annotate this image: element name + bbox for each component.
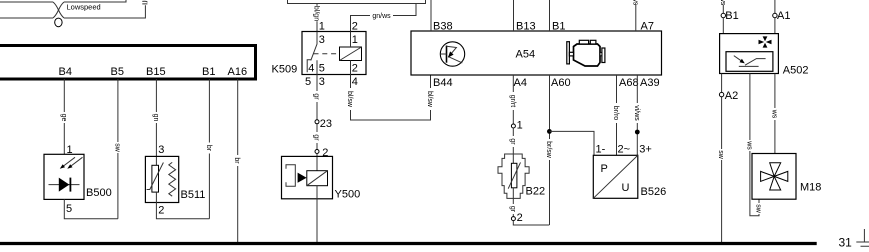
svg-text:B22: B22 xyxy=(526,186,546,198)
Y500 valve arrow xyxy=(298,173,307,183)
wire to A502 B1 with ws remnant xyxy=(722,5,724,14)
wire node 1 to B22 xyxy=(512,128,514,165)
wire A502 to A2 and ground xyxy=(721,74,723,243)
svg-text:B13: B13 xyxy=(516,21,536,33)
wire to A502 A1 xyxy=(774,0,776,13)
svg-text:A60: A60 xyxy=(551,77,571,89)
B500 photodiode xyxy=(49,184,80,186)
top connector box (cut off) xyxy=(288,0,426,4)
sensor B511 box xyxy=(145,156,178,202)
svg-text:1: 1 xyxy=(67,144,73,156)
relay switch arm xyxy=(311,32,317,61)
wire A16 to ground bus xyxy=(237,79,239,242)
svg-text:1: 1 xyxy=(319,21,325,33)
B511 heater resistor zigzag xyxy=(169,162,176,196)
valve Y500 box xyxy=(282,156,333,198)
svg-text:A502: A502 xyxy=(783,65,809,77)
wire A39 to B526 pin 3 xyxy=(636,75,638,155)
svg-text:A2: A2 xyxy=(725,90,738,102)
svg-text:5: 5 xyxy=(66,203,72,215)
svg-text:gn/ws: gn/ws xyxy=(372,13,391,20)
wire Y500 to ground bus xyxy=(316,186,318,243)
wire B1 down xyxy=(208,79,210,219)
svg-text:3: 3 xyxy=(319,76,325,88)
svg-text:B511: B511 xyxy=(181,189,206,201)
wire B4 to B500 pin1 xyxy=(63,79,65,154)
svg-text:bl/sw: bl/sw xyxy=(346,91,353,108)
wire label gr xyxy=(313,91,322,102)
wire label ws xyxy=(745,140,754,151)
pin circle B1 xyxy=(721,13,725,17)
wire label br/sw xyxy=(545,139,554,160)
svg-text:gr/rt: gr/rt xyxy=(509,95,516,108)
svg-text:gr: gr xyxy=(509,138,516,145)
wire label gn/ws xyxy=(370,11,393,20)
pin circle A2 xyxy=(719,92,723,96)
wire label br xyxy=(233,155,242,166)
ground symbol xyxy=(856,229,869,246)
svg-text:3+: 3+ xyxy=(639,144,652,156)
svg-text:1: 1 xyxy=(352,34,358,46)
svg-text:31: 31 xyxy=(839,236,853,250)
svg-text:4: 4 xyxy=(352,76,358,88)
wire label bl/sw xyxy=(346,88,355,110)
Y500 coil xyxy=(307,171,328,186)
wire node 2 to br/sw riser xyxy=(513,221,549,225)
wire K509 pin5 to node 23 xyxy=(316,75,318,120)
svg-text:vi/ws: vi/ws xyxy=(633,105,640,121)
wire node 2 into Y500 xyxy=(316,154,318,171)
svg-text:sw: sw xyxy=(717,150,724,160)
B500 light arrows xyxy=(62,157,83,167)
svg-text:B5: B5 xyxy=(111,66,124,78)
fan motor M18 box xyxy=(752,154,796,200)
wire label br xyxy=(205,143,214,154)
wire CAN lower strand xyxy=(0,5,145,18)
wire B15 to B511 pin3 xyxy=(155,79,157,165)
svg-text:A7: A7 xyxy=(641,21,654,33)
wire B22 to node 2 xyxy=(512,188,514,217)
svg-text:2: 2 xyxy=(352,21,358,33)
wire label sw xyxy=(113,142,122,153)
wire label gr xyxy=(313,132,322,143)
svg-text:br/sw: br/sw xyxy=(545,141,552,159)
relay contact 5 lead xyxy=(316,60,318,74)
svg-text:U: U xyxy=(622,182,630,194)
wire to B13 xyxy=(513,0,515,31)
svg-text:B500: B500 xyxy=(86,187,112,199)
svg-text:B15: B15 xyxy=(146,66,166,78)
wire label gr/rt xyxy=(509,92,518,110)
sensor B500 box xyxy=(44,154,84,199)
off-page arrow xyxy=(142,1,147,4)
svg-text:ge: ge xyxy=(60,114,67,122)
svg-text:B1: B1 xyxy=(725,10,738,22)
svg-text:1-: 1- xyxy=(596,144,606,156)
relay mechanical link (dashed) xyxy=(314,53,340,55)
svg-text:2: 2 xyxy=(322,147,328,159)
svg-text:P: P xyxy=(601,163,608,175)
svg-text:br/ro: br/ro xyxy=(612,106,619,121)
wire label gr xyxy=(509,204,518,214)
wire to A7 with ws label remnant xyxy=(635,5,637,32)
fan control unit A502 box xyxy=(720,34,779,74)
B22 thermistor xyxy=(511,163,516,188)
svg-text:bl/gn: bl/gn xyxy=(313,6,320,21)
junction dot on A39 wire xyxy=(635,130,640,135)
svg-text:B38: B38 xyxy=(433,21,453,33)
relay coil leads xyxy=(350,32,352,75)
svg-text:A16: A16 xyxy=(228,66,248,78)
wire label gn xyxy=(152,112,161,123)
wire label br/ro xyxy=(612,103,621,123)
A502 mini fan xyxy=(759,36,772,47)
svg-text:A39: A39 xyxy=(640,77,660,89)
wire junction to B526 pin 1 xyxy=(549,131,594,155)
svg-text:ws: ws xyxy=(745,140,752,150)
svg-text:A4: A4 xyxy=(514,77,527,89)
svg-text:A54: A54 xyxy=(516,49,536,61)
svg-text:Lowspeed: Lowspeed xyxy=(67,3,101,12)
wire gn/ws from top box to K509 pin 2 xyxy=(351,4,417,32)
B511 thermistor xyxy=(152,165,159,192)
node 1 connector xyxy=(511,124,515,128)
wire A68 to B526 pin 2 xyxy=(616,75,618,155)
node 23 connector xyxy=(315,120,319,124)
wire to B38 xyxy=(430,0,432,31)
pressure sensor B526 box xyxy=(593,155,638,198)
svg-text:5: 5 xyxy=(319,63,325,75)
wire label ws xyxy=(770,108,779,120)
wire B511 pin2 to B1 wire xyxy=(156,192,209,219)
wire A502 to M18 top xyxy=(774,74,776,154)
svg-text:K509: K509 xyxy=(272,64,298,76)
M18 fan blades xyxy=(761,163,788,190)
wire label sw xyxy=(755,203,764,214)
wire label ge xyxy=(60,112,69,123)
wire CAN upper strand xyxy=(0,0,126,2)
relay fixed contact 4 bracket xyxy=(307,60,311,72)
svg-text:B1: B1 xyxy=(202,66,215,78)
Y500 valve armature xyxy=(286,165,295,186)
relay K509 box xyxy=(302,32,366,75)
sensor B22 housing xyxy=(498,154,529,198)
svg-text:M18: M18 xyxy=(800,182,821,194)
svg-text:2: 2 xyxy=(352,63,358,75)
svg-text:br: br xyxy=(233,157,240,164)
pin circle A1 xyxy=(773,13,777,17)
svg-text:5: 5 xyxy=(305,76,311,88)
junction dot xyxy=(547,129,552,134)
svg-text:gr: gr xyxy=(313,134,320,141)
svg-text:23: 23 xyxy=(320,118,332,130)
svg-text:B44: B44 xyxy=(433,77,453,89)
wire label gr xyxy=(509,136,518,147)
svg-text:A1: A1 xyxy=(777,10,790,22)
node 2 connector xyxy=(511,217,515,221)
svg-text:B1: B1 xyxy=(552,21,565,33)
svg-text:sw: sw xyxy=(113,143,120,153)
A54 transistor circle xyxy=(440,42,464,66)
svg-text:sw: sw xyxy=(755,204,762,214)
wire label bl/sw xyxy=(426,88,435,110)
svg-text:2: 2 xyxy=(158,205,164,217)
wire label sw xyxy=(717,149,726,160)
svg-text:3: 3 xyxy=(158,144,164,156)
wire label bl/gn xyxy=(313,6,322,21)
svg-text:B526: B526 xyxy=(641,186,667,198)
svg-text:Y500: Y500 xyxy=(335,189,361,201)
wire label vi/ws xyxy=(633,103,642,123)
relay coil xyxy=(340,47,362,61)
fuse/relay carrier box (thick, cut at left) xyxy=(0,46,256,80)
wire B5 down xyxy=(117,79,119,219)
engine icon xyxy=(567,40,605,66)
wire A502 to M18 bottom xyxy=(750,74,759,216)
wire K509 pin4 to A54 B44 xyxy=(351,75,431,121)
wire B500 pin5 to B5 wire xyxy=(64,199,118,218)
wire A4 to node 1 xyxy=(512,75,514,124)
node 2 connector xyxy=(315,150,319,154)
svg-text:gr: gr xyxy=(509,206,516,213)
svg-text:ws: ws xyxy=(719,0,726,6)
wire node 23 to node 2 xyxy=(316,124,318,149)
svg-text:br: br xyxy=(205,145,212,152)
wire bl/gn from top box to K509 pin 1 xyxy=(316,4,318,32)
twisted pair crossover xyxy=(53,2,64,18)
svg-text:bl/sw: bl/sw xyxy=(426,91,433,108)
A502 inner switch box xyxy=(726,52,773,72)
ground bus 31 xyxy=(0,242,817,245)
svg-text:ws: ws xyxy=(631,0,638,6)
svg-text:gn: gn xyxy=(152,114,159,122)
wire A60 down (br/sw) xyxy=(549,75,551,225)
svg-text:3: 3 xyxy=(319,34,325,46)
svg-text:1: 1 xyxy=(517,120,523,132)
svg-text:ws: ws xyxy=(770,109,777,119)
svg-text:4: 4 xyxy=(308,63,314,75)
svg-text:A68: A68 xyxy=(619,77,639,89)
svg-text:2~: 2~ xyxy=(618,144,631,156)
wire to B1 xyxy=(549,0,551,31)
svg-text:gr: gr xyxy=(313,93,320,100)
svg-text:B4: B4 xyxy=(59,66,72,78)
control unit A54 box xyxy=(411,31,662,75)
svg-text:2: 2 xyxy=(517,212,523,224)
